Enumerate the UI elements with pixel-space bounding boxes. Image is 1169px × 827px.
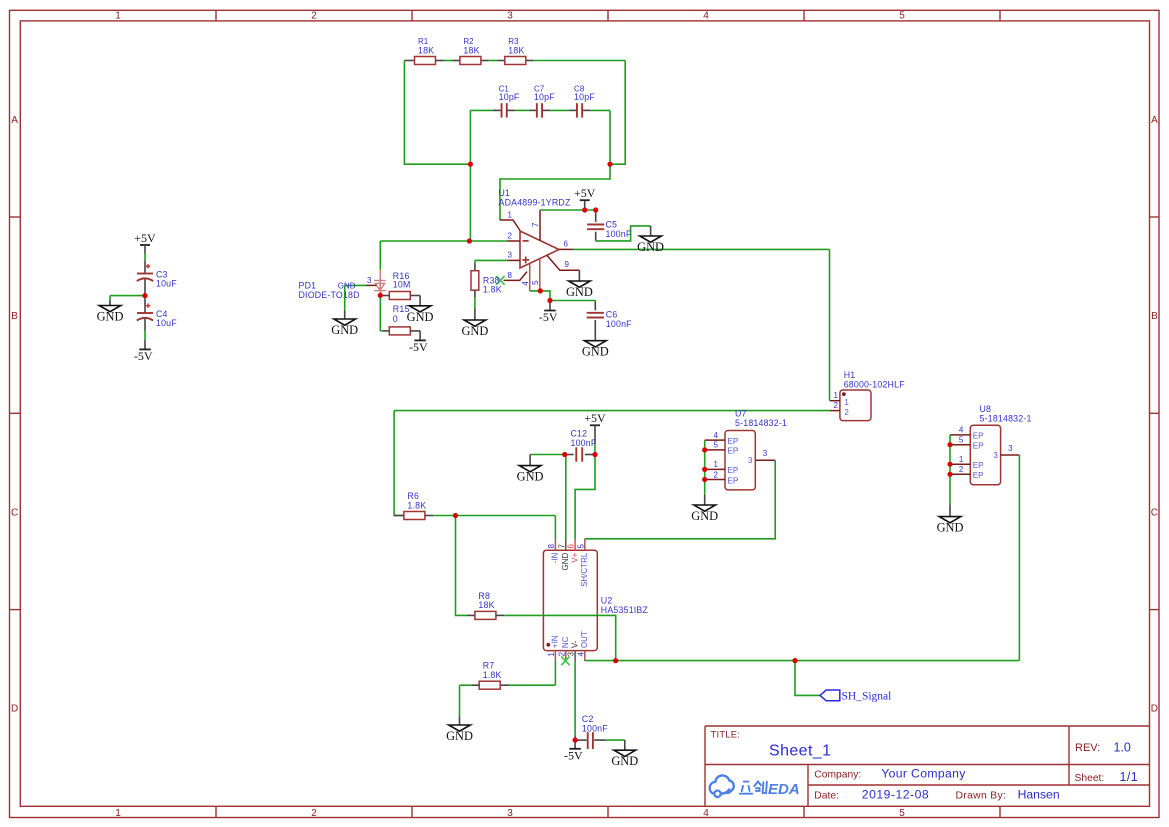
svg-text:10pF: 10pF: [534, 92, 555, 102]
svg-text:1: 1: [844, 398, 849, 407]
svg-text:5: 5: [959, 436, 964, 445]
svg-text:2: 2: [311, 11, 317, 22]
svg-text:1: 1: [834, 391, 839, 400]
svg-text:C6: C6: [606, 309, 618, 319]
svg-text:5: 5: [576, 544, 585, 549]
svg-text:H1: H1: [844, 370, 856, 380]
svg-text:DIODE-TO18D: DIODE-TO18D: [299, 290, 360, 300]
svg-text:+5V: +5V: [584, 411, 606, 425]
svg-text:1.0: 1.0: [1114, 741, 1131, 755]
svg-text:Company:: Company:: [814, 769, 861, 780]
svg-text:U7: U7: [735, 409, 747, 419]
svg-text:5: 5: [531, 280, 540, 285]
svg-text:1.8K: 1.8K: [407, 500, 426, 510]
svg-text:1.8K: 1.8K: [483, 670, 502, 680]
svg-text:+IN: +IN: [551, 635, 560, 648]
svg-text:A: A: [11, 115, 18, 126]
svg-text:Sheet_1: Sheet_1: [769, 743, 831, 760]
svg-text:3: 3: [507, 11, 513, 22]
svg-text:1: 1: [115, 808, 121, 819]
svg-text:4: 4: [959, 426, 964, 435]
svg-text:4: 4: [576, 652, 585, 657]
svg-text:5: 5: [899, 11, 905, 22]
svg-text:GND: GND: [97, 310, 124, 324]
svg-text:PD1: PD1: [299, 281, 317, 291]
svg-text:18K: 18K: [463, 45, 479, 55]
svg-text:U2: U2: [601, 596, 613, 606]
svg-text:Your Company: Your Company: [881, 766, 966, 780]
svg-text:SH_Signal: SH_Signal: [842, 691, 892, 703]
svg-text:18K: 18K: [418, 45, 434, 55]
svg-text:10uF: 10uF: [156, 279, 177, 289]
svg-text:GND: GND: [461, 324, 488, 338]
svg-text:GND: GND: [561, 552, 570, 570]
svg-text:GND: GND: [338, 282, 356, 291]
svg-text:3: 3: [748, 456, 753, 465]
svg-text:EP: EP: [973, 432, 984, 441]
svg-text:9: 9: [565, 260, 570, 269]
svg-text:4: 4: [703, 11, 709, 22]
svg-text:-5V: -5V: [539, 310, 558, 324]
svg-text:EP: EP: [728, 476, 739, 485]
svg-text:-IN: -IN: [551, 552, 560, 563]
svg-text:GND: GND: [517, 470, 544, 484]
svg-text:7: 7: [557, 544, 566, 549]
svg-text:10uF: 10uF: [156, 318, 177, 328]
svg-text:OUT: OUT: [580, 631, 589, 648]
svg-text:ADA4899-1YRDZ: ADA4899-1YRDZ: [499, 198, 571, 208]
svg-text:NC: NC: [561, 636, 570, 648]
svg-text:1/1: 1/1: [1120, 770, 1139, 784]
svg-text:3: 3: [367, 276, 372, 285]
svg-text:1: 1: [714, 460, 719, 469]
svg-text:0: 0: [393, 314, 398, 324]
svg-text:U1: U1: [499, 188, 511, 198]
svg-text:Sheet:: Sheet:: [1075, 773, 1105, 784]
svg-text:GND: GND: [582, 345, 609, 359]
svg-text:3: 3: [993, 451, 998, 460]
svg-text:GND: GND: [446, 729, 473, 743]
svg-text:D: D: [1151, 704, 1158, 715]
svg-text:GND: GND: [937, 521, 964, 535]
svg-text:C5: C5: [606, 220, 618, 230]
svg-text:GND: GND: [407, 310, 434, 324]
svg-text:GND: GND: [637, 240, 664, 254]
svg-text:1.8K: 1.8K: [483, 285, 502, 295]
svg-text:2: 2: [714, 470, 719, 479]
svg-text:3: 3: [763, 449, 768, 458]
svg-text:-5V: -5V: [564, 748, 583, 762]
svg-text:Hansen: Hansen: [1018, 787, 1060, 801]
svg-text:EDA: EDA: [768, 781, 800, 798]
svg-text:2: 2: [311, 808, 317, 819]
svg-text:10M: 10M: [393, 279, 411, 289]
svg-text:4: 4: [714, 431, 719, 440]
svg-text:3: 3: [1008, 444, 1013, 453]
svg-text:1: 1: [115, 11, 121, 22]
svg-text:A: A: [1151, 115, 1158, 126]
svg-text:1: 1: [508, 210, 513, 219]
svg-text:2: 2: [508, 231, 513, 240]
svg-text:100nF: 100nF: [606, 319, 632, 329]
svg-text:GND: GND: [611, 754, 638, 768]
svg-text:U8: U8: [980, 404, 992, 414]
svg-text:+5V: +5V: [134, 231, 156, 245]
svg-text:EP: EP: [728, 466, 739, 475]
svg-text:HA5351IBZ: HA5351IBZ: [601, 605, 649, 615]
svg-text:5: 5: [714, 441, 719, 450]
svg-text:Drawn By:: Drawn By:: [956, 790, 1007, 801]
svg-text:V+: V+: [570, 552, 579, 562]
svg-text:2: 2: [844, 408, 849, 417]
svg-text:C: C: [1151, 507, 1158, 518]
svg-text:1: 1: [547, 652, 556, 657]
svg-text:2019-12-08: 2019-12-08: [862, 787, 929, 801]
svg-text:EP: EP: [973, 461, 984, 470]
svg-text:EP: EP: [973, 471, 984, 480]
svg-text:EP: EP: [728, 447, 739, 456]
svg-text:68000-102HLF: 68000-102HLF: [844, 380, 906, 390]
svg-text:5-1814832-1: 5-1814832-1: [735, 418, 787, 428]
svg-text:B: B: [1151, 311, 1158, 322]
svg-text:GND: GND: [331, 323, 358, 337]
svg-text:18K: 18K: [508, 45, 524, 55]
svg-text:EP: EP: [728, 437, 739, 446]
svg-text:1: 1: [959, 455, 964, 464]
svg-text:8: 8: [547, 544, 556, 549]
svg-text:GND: GND: [566, 285, 593, 299]
svg-text:100nF: 100nF: [571, 438, 597, 448]
svg-text:D: D: [11, 704, 18, 715]
svg-text:4: 4: [703, 808, 709, 819]
svg-text:GND: GND: [691, 509, 718, 523]
svg-text:-5V: -5V: [409, 340, 428, 354]
svg-text:3: 3: [508, 251, 513, 260]
svg-text:5: 5: [899, 808, 905, 819]
svg-text:100nF: 100nF: [582, 724, 608, 734]
svg-text:5-1814832-1: 5-1814832-1: [980, 414, 1032, 424]
svg-text:TITLE:: TITLE:: [711, 730, 741, 740]
svg-text:2: 2: [834, 401, 839, 410]
svg-text:+5V: +5V: [574, 186, 596, 200]
svg-text:7: 7: [531, 222, 540, 227]
svg-text:3: 3: [507, 808, 513, 819]
svg-text:2: 2: [557, 652, 566, 657]
svg-text:B: B: [11, 311, 18, 322]
svg-text:SH/CTRL: SH/CTRL: [580, 552, 589, 587]
svg-text:EP: EP: [973, 442, 984, 451]
svg-text:2: 2: [959, 465, 964, 474]
svg-text:3: 3: [567, 652, 576, 657]
svg-text:4: 4: [521, 281, 530, 286]
svg-text:C: C: [11, 507, 18, 518]
svg-text:C2: C2: [582, 714, 594, 724]
svg-text:REV:: REV:: [1075, 742, 1100, 754]
svg-text:6: 6: [564, 240, 569, 249]
svg-text:V-: V-: [570, 640, 579, 648]
svg-text:Date:: Date:: [814, 790, 839, 801]
svg-text:6: 6: [567, 544, 576, 549]
svg-text:10pF: 10pF: [574, 92, 595, 102]
svg-text:8: 8: [508, 271, 513, 280]
svg-text:-5V: -5V: [134, 349, 153, 363]
svg-text:10pF: 10pF: [499, 92, 520, 102]
svg-text:R15: R15: [393, 304, 410, 314]
svg-text:18K: 18K: [478, 600, 494, 610]
svg-text:100nF: 100nF: [606, 229, 632, 239]
